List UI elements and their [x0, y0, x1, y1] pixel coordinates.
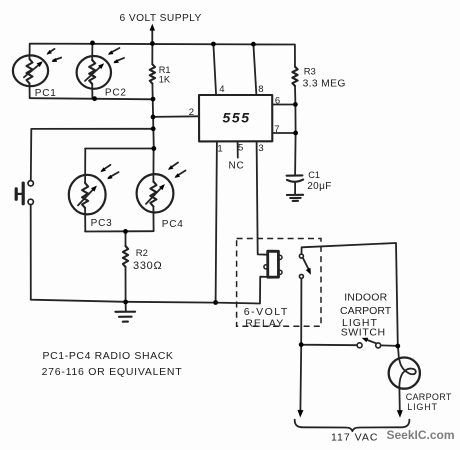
svg-text:PC1-PC4 RADIO SHACK: PC1-PC4 RADIO SHACK — [43, 350, 174, 362]
svg-text:7: 7 — [274, 124, 279, 135]
svg-text:6: 6 — [275, 96, 280, 107]
svg-text:SWITCH: SWITCH — [341, 327, 386, 339]
svg-text:RELAY: RELAY — [245, 317, 284, 329]
svg-text:8: 8 — [258, 84, 263, 95]
svg-text:3: 3 — [258, 143, 263, 154]
svg-text:6-VOLT: 6-VOLT — [244, 306, 289, 318]
svg-text:NC: NC — [229, 161, 245, 172]
svg-text:276-116 OR EQUIVALENT: 276-116 OR EQUIVALENT — [42, 366, 183, 378]
svg-text:SeekIC.com: SeekIC.com — [387, 428, 455, 442]
svg-text:2: 2 — [189, 107, 194, 118]
svg-text:555: 555 — [223, 110, 251, 126]
svg-text:LIGHT: LIGHT — [407, 402, 438, 412]
svg-text:PC3: PC3 — [91, 218, 113, 229]
svg-text:PC2: PC2 — [105, 87, 127, 98]
svg-text:INDOOR: INDOOR — [344, 292, 387, 304]
svg-text:3.3 MEG: 3.3 MEG — [303, 79, 346, 90]
svg-text:CARPORT: CARPORT — [340, 305, 392, 317]
svg-text:20μF: 20μF — [307, 181, 332, 192]
svg-text:5: 5 — [238, 143, 243, 154]
svg-text:R3: R3 — [304, 67, 316, 78]
svg-text:PC1: PC1 — [35, 88, 57, 99]
svg-text:4: 4 — [219, 84, 224, 95]
svg-text:330Ω: 330Ω — [133, 260, 162, 272]
svg-text:CARPORT: CARPORT — [406, 392, 452, 402]
svg-text:R2: R2 — [136, 248, 148, 259]
svg-text:1: 1 — [217, 144, 222, 155]
svg-text:PC4: PC4 — [162, 219, 184, 230]
svg-text:C1: C1 — [308, 170, 320, 180]
svg-text:1K: 1K — [159, 74, 171, 84]
svg-text:117 VAC: 117 VAC — [331, 432, 378, 444]
svg-text:6 VOLT SUPPLY: 6 VOLT SUPPLY — [120, 13, 202, 24]
